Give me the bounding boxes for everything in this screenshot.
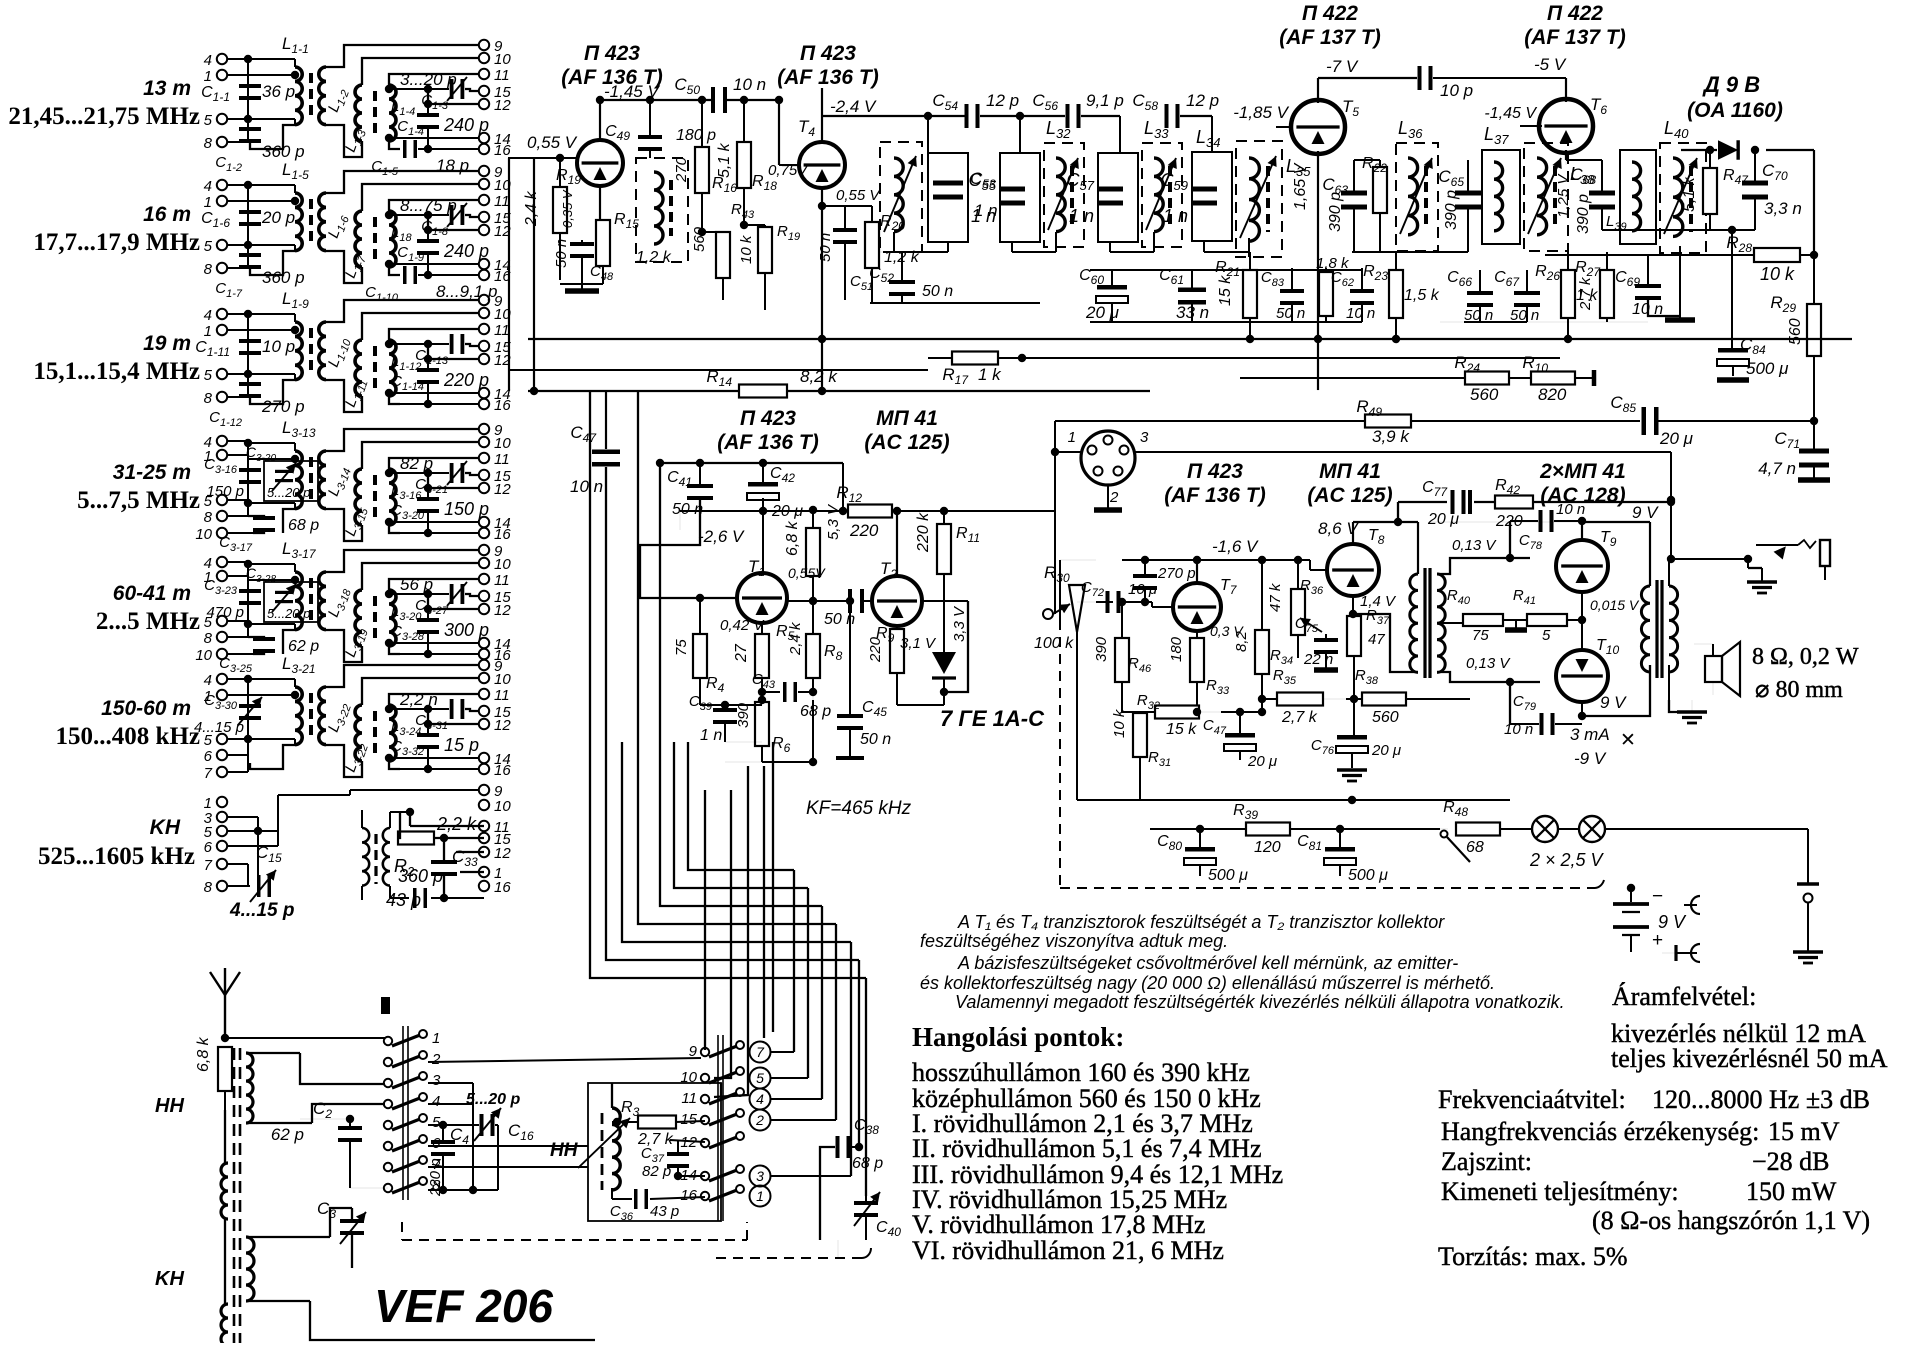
- switch contact 1: [384, 1037, 392, 1045]
- svg-text:2: 2: [755, 1112, 764, 1128]
- svg-text:9 V: 9 V: [1600, 693, 1627, 712]
- resistor 6,8k antenna: [218, 1047, 232, 1091]
- switch contact 4: [384, 1100, 392, 1108]
- svg-text:0,55 V: 0,55 V: [836, 187, 881, 204]
- resistor R32 15k: [1155, 706, 1199, 719]
- capacitor C68 390p: [1589, 191, 1615, 196]
- terminal 8: [217, 881, 227, 891]
- speaker: [1705, 656, 1722, 682]
- circled contact 5: [750, 1068, 771, 1089]
- resistor R14 8,2k: [739, 385, 787, 398]
- terminal 1: [217, 70, 227, 80]
- svg-text:390: 390: [735, 702, 752, 728]
- svg-text:2,2 k: 2,2 k: [436, 814, 477, 834]
- IF transformer L32: [1044, 143, 1084, 247]
- capacitor C80 500u: [1185, 847, 1215, 852]
- terminal 12: [479, 719, 489, 729]
- wire: [590, 392, 866, 978]
- svg-text:5,1 k: 5,1 k: [716, 142, 733, 178]
- terminal 6: [217, 750, 227, 760]
- svg-text:50 n: 50 n: [672, 501, 703, 518]
- svg-text:60-41 m: 60-41 m: [113, 582, 191, 605]
- band switch left bank: [381, 997, 390, 1014]
- svg-text:11: 11: [494, 572, 510, 589]
- resistor R4 75: [693, 634, 707, 678]
- inductor L3-15: [355, 469, 362, 525]
- svg-text:12: 12: [494, 717, 511, 734]
- capacitor C1-8 8...75 p: [450, 205, 454, 225]
- terminal 1: [479, 867, 489, 877]
- capacitor C48 50n: [570, 242, 594, 246]
- terminal 9: [479, 295, 489, 305]
- wire: [807, 888, 809, 1078]
- transistor T4: [799, 142, 845, 188]
- terminal 5: [217, 495, 227, 505]
- svg-text:50 n: 50 n: [553, 239, 570, 268]
- inductor L3-22: [355, 705, 362, 761]
- terminal 3: [217, 812, 227, 822]
- ground: [1677, 710, 1707, 714]
- svg-text:8,2: 8,2: [1233, 630, 1250, 652]
- svg-text:Hangfrekvenciás érzékenység:: Hangfrekvenciás érzékenység:: [1441, 1117, 1759, 1146]
- svg-text:150-60 m: 150-60 m: [101, 697, 191, 720]
- capacitor C3-28 300 p: [417, 618, 439, 622]
- inductor L1-12: [389, 340, 396, 396]
- svg-text:(AF 136 T): (AF 136 T): [777, 66, 879, 89]
- circled contact 7: [750, 1042, 771, 1063]
- svg-text:3,3 n: 3,3 n: [1764, 199, 1802, 218]
- terminal 10: [479, 437, 489, 447]
- transistor T6: [1539, 99, 1593, 153]
- capacitor C43 68p: [783, 682, 787, 702]
- svg-text:11: 11: [681, 1090, 697, 1107]
- svg-text:(8 Ω-os hangszórón 1,1 V): (8 Ω-os hangszórón 1,1 V): [1592, 1206, 1870, 1235]
- wire: [362, 313, 479, 340]
- svg-text:12: 12: [494, 481, 511, 498]
- wire tank bottom rail: [880, 251, 900, 253]
- terminal 9: [479, 166, 489, 176]
- input coil KH A: [221, 1163, 228, 1219]
- resistor R28 10k: [1754, 248, 1800, 262]
- svg-text:820: 820: [1538, 385, 1567, 404]
- capacitor 43 p: [413, 888, 417, 908]
- capacitor C71 4,7n: [1799, 449, 1829, 454]
- svg-text:3: 3: [432, 1072, 441, 1089]
- svg-text:20 μ: 20 μ: [1247, 753, 1277, 770]
- terminal 15: [479, 833, 489, 843]
- svg-text:VEF 206: VEF 206: [374, 1280, 553, 1332]
- svg-text:П 423: П 423: [800, 42, 856, 65]
- capacitor C65 390p: [1455, 191, 1481, 196]
- svg-text:82 p: 82 p: [642, 1163, 671, 1180]
- svg-text:12 p: 12 p: [986, 91, 1019, 110]
- capacitor C54 12p: [965, 104, 969, 128]
- capacitor C41 50n: [687, 484, 713, 488]
- svg-text:12 p: 12 p: [1186, 91, 1219, 110]
- svg-text:2...5 MHz: 2...5 MHz: [96, 608, 200, 635]
- inductor L3-19: [355, 590, 362, 646]
- wire: [922, 600, 968, 602]
- svg-text:1 n: 1 n: [1069, 206, 1094, 226]
- svg-text:120: 120: [1254, 839, 1281, 856]
- transistor T9: [1556, 540, 1608, 592]
- switch contact 14: [701, 1172, 709, 1180]
- dashed routing: [402, 1239, 747, 1241]
- svg-text:220: 220: [867, 636, 884, 663]
- wire: [424, 85, 432, 93]
- capacitor C1-13: [450, 334, 454, 354]
- resistor R46 390: [1115, 638, 1129, 682]
- svg-text:15 mV: 15 mV: [1768, 1117, 1840, 1146]
- tuned circuit C59 1n: [1192, 152, 1232, 241]
- svg-text:5,1 k: 5,1 k: [1681, 176, 1698, 212]
- wire: [725, 741, 762, 743]
- core: [373, 217, 377, 263]
- capacitor C1-4 240 p: [417, 113, 439, 117]
- terminal 11: [479, 821, 489, 831]
- inductor L1-7: [355, 211, 362, 267]
- dashed AGC box: [1059, 620, 1061, 888]
- capacitor C3-30 4...15 p: [239, 704, 261, 708]
- wire: [638, 392, 836, 924]
- terminal 14: [479, 133, 489, 143]
- terminal 1: [217, 325, 227, 335]
- terminal 7: [217, 767, 227, 777]
- svg-text:4...15 p: 4...15 p: [229, 900, 294, 921]
- transistor T2: [872, 576, 922, 626]
- svg-text:16: 16: [680, 1187, 697, 1204]
- wire: [326, 300, 479, 322]
- svg-text:5: 5: [204, 112, 213, 129]
- capacitor C3-32 15 p: [417, 733, 439, 737]
- wire: [362, 678, 479, 705]
- capacitor C81 500u: [1325, 847, 1355, 852]
- svg-text:15 k: 15 k: [1166, 721, 1197, 738]
- svg-text:МП 41: МП 41: [876, 407, 938, 430]
- core: [309, 73, 313, 119]
- svg-text:0,42 V: 0,42 V: [720, 617, 765, 634]
- svg-text:−28 dB: −28 dB: [1752, 1147, 1830, 1176]
- svg-text:19 m: 19 m: [143, 332, 191, 355]
- ground: [1107, 485, 1109, 508]
- svg-text:1 k: 1 k: [978, 365, 1002, 384]
- svg-text:-9 V: -9 V: [1574, 749, 1607, 768]
- terminal 5: [217, 826, 227, 836]
- svg-text:220: 220: [849, 521, 879, 540]
- resistor R20 1,2k: [865, 222, 879, 268]
- wire: [361, 810, 363, 828]
- terminal 15: [479, 591, 489, 601]
- terminal 16: [479, 881, 489, 891]
- wire: [424, 590, 432, 598]
- wire: [362, 442, 479, 469]
- svg-text:11: 11: [494, 451, 510, 468]
- wire secondary to T9 T10: [1437, 558, 1530, 574]
- terminal 8: [217, 511, 227, 521]
- wire: [385, 518, 393, 526]
- svg-text:0,55 V: 0,55 V: [527, 133, 578, 152]
- wire row rails: [1090, 269, 1362, 271]
- svg-text:0,55V: 0,55V: [788, 565, 826, 581]
- capacitor C1-2 360 p: [239, 127, 261, 131]
- terminal 9: [479, 545, 489, 555]
- resistor R27 2,7k: [1600, 270, 1614, 318]
- svg-text:6: 6: [204, 839, 213, 856]
- svg-text:-5 V: -5 V: [1534, 55, 1567, 74]
- diode D9V: [1718, 140, 1738, 160]
- svg-text:1: 1: [432, 1030, 440, 1047]
- terminal 12: [479, 354, 489, 364]
- terminal 12: [479, 99, 489, 109]
- svg-text:100 k: 100 k: [1034, 635, 1074, 652]
- wire: [640, 500, 737, 598]
- svg-text:10 k: 10 k: [738, 234, 755, 264]
- svg-text:4...15 p: 4...15 p: [194, 719, 244, 736]
- ground: [1665, 317, 1695, 323]
- svg-text:1,25 V: 1,25 V: [1555, 173, 1572, 218]
- input coil HH: [246, 1053, 253, 1123]
- capacitor C37 82p: [667, 1152, 689, 1156]
- capacitor C47 10n: [592, 450, 620, 455]
- terminal 15: [479, 706, 489, 716]
- terminal 1: [217, 450, 227, 460]
- wire: [326, 171, 479, 193]
- svg-text:43 p: 43 p: [386, 890, 421, 910]
- wire: [424, 705, 432, 713]
- svg-text:16: 16: [494, 879, 511, 896]
- core: [373, 91, 377, 137]
- terminal 10: [479, 53, 489, 63]
- wire: [835, 924, 837, 1120]
- wire: [225, 1037, 385, 1039]
- transistor T10: [1556, 650, 1608, 702]
- svg-text:KF=465 kHz: KF=465 kHz: [806, 798, 912, 819]
- wire: [385, 260, 393, 268]
- wire: [248, 442, 295, 444]
- wire C40 drop: [837, 1177, 839, 1179]
- svg-text:220 k: 220 k: [915, 512, 932, 553]
- svg-text:16: 16: [494, 762, 511, 779]
- svg-text:V. rövidhullámon 17,8 MHz: V. rövidhullámon 17,8 MHz: [912, 1210, 1205, 1239]
- svg-text:15: 15: [680, 1111, 697, 1128]
- IF transformer L39 L40: [1620, 150, 1656, 244]
- resistor R12 220: [848, 505, 892, 518]
- core: [309, 457, 313, 503]
- svg-text:10 p: 10 p: [1440, 81, 1473, 100]
- terminal 15: [479, 341, 489, 351]
- trimmer capacitor C3-17: [264, 461, 318, 501]
- lamps 2x2,5V: [1532, 816, 1558, 842]
- wire: [821, 906, 823, 1099]
- svg-text:3,1 V: 3,1 V: [900, 635, 937, 652]
- wire: [385, 134, 393, 142]
- switch contact 7: [384, 1163, 392, 1171]
- svg-text:8: 8: [204, 879, 213, 896]
- svg-text:36 p: 36 p: [262, 82, 295, 101]
- IF transformer L37 L38: [1482, 150, 1520, 244]
- ground: [560, 283, 603, 285]
- wire: [326, 665, 479, 687]
- inductor L3-20: [389, 590, 396, 646]
- wire: [1353, 521, 1418, 523]
- terminal 12: [479, 225, 489, 235]
- ground: [1505, 627, 1527, 633]
- IF transformer L35: [1236, 141, 1282, 257]
- svg-text:4: 4: [756, 1091, 764, 1107]
- svg-text:П 423: П 423: [584, 42, 640, 65]
- svg-text:62 p: 62 p: [288, 638, 319, 655]
- svg-text:470 p: 470 p: [206, 604, 244, 621]
- svg-text:Д 9 В: Д 9 В: [1702, 72, 1760, 97]
- svg-text:8: 8: [204, 261, 213, 278]
- svg-text:1: 1: [204, 323, 212, 340]
- wire: [385, 639, 393, 647]
- wire to first IF tank: [822, 115, 966, 117]
- antenna: [224, 995, 226, 1038]
- inductor L3-22: [319, 687, 326, 745]
- svg-text:VI. rövidhullámon 21, 6 MHz: VI. rövidhullámon 21, 6 MHz: [912, 1236, 1224, 1265]
- capacitor C1-7 360 p: [239, 253, 261, 257]
- svg-text:2,7 k: 2,7 k: [1577, 276, 1594, 311]
- resistor R19 2,4k: [553, 187, 567, 233]
- switch contact 12: [701, 1139, 709, 1147]
- wire fan to switch banks: [704, 790, 706, 1050]
- terminal 10: [479, 558, 489, 568]
- resistor 6,8k: [806, 528, 820, 576]
- terminal 4: [217, 54, 227, 64]
- terminal 1: [217, 571, 227, 581]
- wire: [980, 115, 1020, 117]
- svg-text:150...408 kHz: 150...408 kHz: [56, 723, 200, 750]
- svg-text:3: 3: [1140, 429, 1149, 446]
- resistor R47 5,1k: [1703, 168, 1717, 214]
- wire verticals: [508, 158, 510, 391]
- wire: [846, 597, 854, 605]
- terminal 4: [217, 674, 227, 684]
- svg-text:50 n: 50 n: [817, 233, 834, 262]
- wire rail: [247, 185, 249, 268]
- resistor R33 180: [1190, 638, 1204, 682]
- connector symbols: [1691, 896, 1700, 914]
- terminal 11: [479, 689, 489, 699]
- svg-text:1: 1: [204, 68, 212, 85]
- resistor R10 820: [1531, 372, 1575, 385]
- wire: [660, 463, 822, 906]
- capacitor C61 33n: [1178, 288, 1206, 293]
- svg-text:(AF 137 T): (AF 137 T): [1524, 26, 1626, 49]
- svg-text:27: 27: [733, 643, 750, 663]
- svg-text:560: 560: [1470, 385, 1499, 404]
- resistor R11 220k: [937, 524, 951, 574]
- terminal 8: [217, 263, 227, 273]
- terminal 4: [217, 180, 227, 190]
- terminal 11: [479, 69, 489, 79]
- wire: [896, 511, 898, 576]
- svg-text:16 m: 16 m: [143, 203, 191, 226]
- svg-text:13 m: 13 m: [143, 77, 191, 100]
- band switch right bank: [717, 1035, 719, 1221]
- wire: [622, 742, 851, 942]
- svg-text:(AC 125): (AC 125): [864, 431, 949, 454]
- trimmer capacitor C3-25: [264, 582, 318, 622]
- transistor T7: [1173, 583, 1221, 631]
- terminal 1: [217, 797, 227, 807]
- capacitor C38 68p: [836, 1136, 840, 1158]
- svg-text:0,015 V: 0,015 V: [1590, 597, 1640, 613]
- svg-text:2: 2: [1109, 489, 1119, 506]
- capacitor C15 4...15 p: [257, 875, 261, 897]
- svg-text:68 p: 68 p: [852, 1155, 883, 1172]
- wire: [227, 816, 258, 818]
- svg-text:(AF 136 T): (AF 136 T): [1164, 484, 1266, 507]
- capacitor C49 180p: [638, 135, 662, 139]
- capacitor C50 10n: [711, 87, 715, 113]
- svg-text:360 p: 360 p: [398, 866, 443, 886]
- core: [309, 693, 313, 739]
- capacitor C39 1n: [713, 708, 737, 712]
- svg-text:6,8 k: 6,8 k: [195, 1036, 212, 1072]
- svg-text:20 μ: 20 μ: [1427, 511, 1459, 528]
- capacitor C60 20u: [1097, 285, 1127, 290]
- svg-text:8: 8: [204, 135, 213, 152]
- switch contact 2: [384, 1058, 392, 1066]
- svg-text:Torzítás: max. 5%: Torzítás: max. 5%: [1438, 1242, 1628, 1271]
- svg-text:12: 12: [494, 602, 511, 619]
- svg-text:120...8000 Hz ±3 dB: 120...8000 Hz ±3 dB: [1652, 1085, 1870, 1114]
- terminal 6: [217, 841, 227, 851]
- svg-text:12: 12: [494, 97, 511, 114]
- svg-text:0,13 V: 0,13 V: [1452, 537, 1497, 554]
- core: [373, 711, 377, 757]
- core: [309, 328, 313, 374]
- svg-text:68 p: 68 p: [288, 517, 319, 534]
- svg-text:11: 11: [494, 193, 510, 210]
- terminal 9: [479, 40, 489, 50]
- svg-text:7: 7: [756, 1044, 765, 1060]
- circled contact 1: [750, 1186, 771, 1207]
- resistor R42 220: [1495, 496, 1533, 509]
- terminal 1: [217, 196, 227, 206]
- wire rail: [247, 562, 249, 637]
- svg-text:(AF 137 T): (AF 137 T): [1279, 26, 1381, 49]
- resistor R21 15k: [1243, 270, 1257, 318]
- wire: [456, 851, 484, 853]
- svg-text:68 p: 68 p: [800, 703, 831, 720]
- terminal 12: [479, 847, 489, 857]
- capacitor C47b 20u: [1225, 733, 1255, 738]
- resistor R49 3,9k: [1365, 415, 1411, 428]
- svg-text:(OA 1160): (OA 1160): [1687, 99, 1783, 122]
- terminal 10: [217, 528, 227, 538]
- resistor R37 47: [1347, 616, 1361, 656]
- switch contact 5: [384, 1121, 392, 1129]
- svg-text:560: 560: [1372, 709, 1399, 726]
- svg-text:-2,6 V: -2,6 V: [698, 527, 745, 546]
- capacitor C62 10n: [1350, 289, 1374, 293]
- core: [309, 199, 313, 245]
- inductor L18: [389, 211, 396, 267]
- resistor R29 560: [1807, 304, 1821, 356]
- capacitor C72 10u: [1106, 591, 1110, 613]
- svg-text:8: 8: [204, 509, 213, 526]
- svg-text:KH: KH: [155, 1268, 184, 1290]
- tuned circuit C57 1n: [1098, 153, 1138, 242]
- svg-text:500 μ: 500 μ: [1348, 867, 1388, 884]
- resistor 1,8k: [1319, 272, 1333, 316]
- output transformer: [1641, 586, 1650, 672]
- capacitor C51 50n: [833, 228, 857, 232]
- svg-text:1,5 k: 1,5 k: [1404, 287, 1440, 304]
